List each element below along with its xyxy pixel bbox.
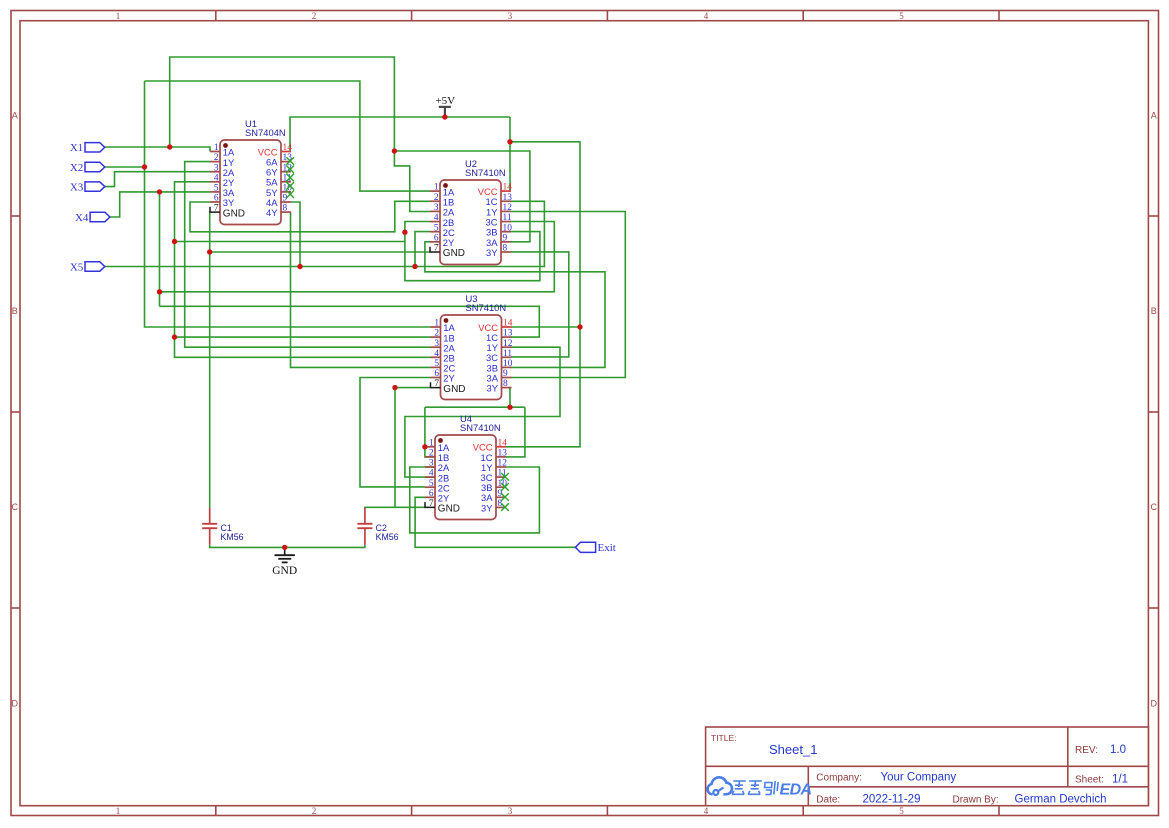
svg-text:14: 14 xyxy=(503,319,513,329)
svg-text:2Y: 2Y xyxy=(438,493,450,504)
svg-text:2: 2 xyxy=(429,449,434,459)
svg-text:3Y: 3Y xyxy=(481,502,493,513)
svg-text:4: 4 xyxy=(429,469,434,479)
svg-text:X2: X2 xyxy=(70,162,83,174)
svg-text:SN7410N: SN7410N xyxy=(466,302,507,313)
svg-text:2Y: 2Y xyxy=(443,237,455,248)
svg-text:1.0: 1.0 xyxy=(1110,744,1126,756)
svg-text:Date:: Date: xyxy=(816,795,840,806)
svg-text:GND: GND xyxy=(438,504,460,515)
svg-text:4: 4 xyxy=(434,213,439,223)
svg-text:9: 9 xyxy=(503,233,508,243)
svg-text:13: 13 xyxy=(503,329,513,339)
svg-text:D: D xyxy=(1151,699,1158,709)
svg-text:13: 13 xyxy=(503,193,513,203)
svg-text:6: 6 xyxy=(214,194,219,204)
svg-text:X5: X5 xyxy=(70,261,84,273)
svg-text:10: 10 xyxy=(503,223,513,233)
svg-text:Drawn By:: Drawn By: xyxy=(953,795,999,806)
svg-text:12: 12 xyxy=(498,459,508,469)
svg-text:4: 4 xyxy=(704,806,709,816)
svg-text:9: 9 xyxy=(283,194,288,204)
svg-text:5: 5 xyxy=(899,11,904,21)
svg-text:3Y: 3Y xyxy=(223,197,235,208)
svg-text:2Y: 2Y xyxy=(443,373,455,384)
svg-text:6: 6 xyxy=(429,489,434,499)
svg-text:9: 9 xyxy=(503,369,508,379)
svg-text:KM56: KM56 xyxy=(221,532,244,542)
svg-text:GND: GND xyxy=(223,208,245,219)
svg-text:11: 11 xyxy=(503,213,512,223)
svg-text:2022-11-29: 2022-11-29 xyxy=(863,794,921,806)
svg-text:SN7410N: SN7410N xyxy=(465,167,506,178)
svg-text:8: 8 xyxy=(283,204,288,214)
svg-text:X1: X1 xyxy=(70,142,83,154)
svg-text:GND: GND xyxy=(272,565,297,577)
svg-text:3: 3 xyxy=(508,806,513,816)
svg-text:3: 3 xyxy=(214,163,219,173)
svg-text:C: C xyxy=(1151,502,1158,512)
svg-text:TITLE:: TITLE: xyxy=(711,733,737,743)
svg-text:+5V: +5V xyxy=(435,95,455,107)
svg-text:3: 3 xyxy=(434,339,439,349)
svg-text:1/1: 1/1 xyxy=(1112,773,1128,785)
svg-text:14: 14 xyxy=(503,183,513,193)
svg-text:8: 8 xyxy=(503,244,508,254)
svg-text:REV:: REV: xyxy=(1075,745,1098,756)
svg-text:12: 12 xyxy=(503,339,513,349)
svg-text:GND: GND xyxy=(443,248,465,259)
svg-text:5: 5 xyxy=(434,359,439,369)
svg-text:2: 2 xyxy=(312,11,317,21)
svg-text:5: 5 xyxy=(214,184,219,194)
svg-text:Company:: Company: xyxy=(816,773,862,784)
svg-text:A: A xyxy=(12,111,18,121)
svg-text:3: 3 xyxy=(429,459,434,469)
svg-text:1: 1 xyxy=(116,806,121,816)
svg-text:2: 2 xyxy=(214,153,219,163)
svg-text:7: 7 xyxy=(434,379,439,389)
svg-text:1: 1 xyxy=(434,183,439,193)
svg-text:3: 3 xyxy=(434,203,439,213)
svg-text:SN7410N: SN7410N xyxy=(460,422,501,433)
svg-text:4: 4 xyxy=(214,173,219,183)
svg-text:D: D xyxy=(12,699,19,709)
svg-text:4: 4 xyxy=(704,11,709,21)
svg-text:13: 13 xyxy=(498,449,508,459)
svg-text:14: 14 xyxy=(283,143,293,153)
svg-text:3Y: 3Y xyxy=(486,247,498,258)
svg-text:14: 14 xyxy=(498,438,508,448)
svg-text:1: 1 xyxy=(116,11,121,21)
svg-text:1: 1 xyxy=(214,143,219,153)
svg-text:Exit: Exit xyxy=(598,542,616,554)
svg-text:11: 11 xyxy=(503,349,512,359)
svg-text:EDA: EDA xyxy=(780,781,812,798)
svg-text:A: A xyxy=(1151,111,1157,121)
svg-text:SN7404N: SN7404N xyxy=(245,127,286,138)
svg-text:Sheet_1: Sheet_1 xyxy=(769,742,817,757)
svg-text:X4: X4 xyxy=(75,212,89,224)
svg-text:B: B xyxy=(1151,306,1157,316)
svg-text:2: 2 xyxy=(434,193,439,203)
svg-text:6: 6 xyxy=(434,233,439,243)
svg-text:7: 7 xyxy=(429,499,434,509)
svg-text:4: 4 xyxy=(434,349,439,359)
svg-text:5: 5 xyxy=(429,479,434,489)
svg-text:2: 2 xyxy=(312,806,317,816)
svg-text:Your Company: Your Company xyxy=(881,772,957,784)
svg-text:X3: X3 xyxy=(70,182,84,194)
svg-text:8: 8 xyxy=(503,379,508,389)
svg-text:5: 5 xyxy=(899,806,904,816)
svg-text:5: 5 xyxy=(434,223,439,233)
svg-text:6: 6 xyxy=(434,369,439,379)
svg-text:1: 1 xyxy=(434,319,439,329)
svg-text:12: 12 xyxy=(503,203,513,213)
svg-text:4Y: 4Y xyxy=(266,207,278,218)
svg-text:7: 7 xyxy=(434,244,439,254)
svg-text:B: B xyxy=(12,306,18,316)
svg-text:2: 2 xyxy=(434,329,439,339)
svg-text:7: 7 xyxy=(214,204,219,214)
svg-text:3: 3 xyxy=(508,11,513,21)
svg-text:C: C xyxy=(12,502,19,512)
svg-text:KM56: KM56 xyxy=(376,532,399,542)
svg-text:Sheet:: Sheet: xyxy=(1075,774,1104,785)
svg-text:1: 1 xyxy=(429,438,434,448)
svg-text:GND: GND xyxy=(443,384,465,395)
svg-text:10: 10 xyxy=(503,359,513,369)
svg-text:German Devchich: German Devchich xyxy=(1015,794,1107,806)
svg-text:3Y: 3Y xyxy=(487,383,499,394)
